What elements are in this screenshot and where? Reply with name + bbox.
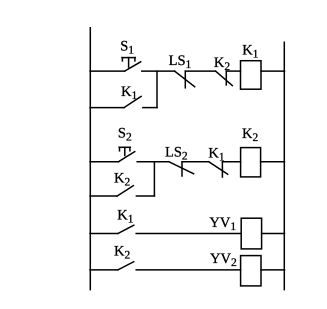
wire row5 coil YV1 to right rail [262,233,285,235]
pushbutton S2 blade [118,152,134,162]
wire row1 LS1 to K2 contact [185,70,215,72]
contact K2 (NO) row6 blade [118,262,134,270]
right power rail [283,42,285,289]
wire row4 right [136,195,154,197]
wire row6 coil YV2 to right rail [261,269,285,271]
wire row1 left [90,70,125,72]
coil YV2 [241,256,261,286]
wire row6 left [90,269,118,271]
wire row1 S1 to LS1 [142,70,175,72]
wire row1 K2 to coil K1 [226,70,240,72]
svg-text:K1: K1 [208,146,224,164]
wire row3 LS2 to K1 contact [182,161,209,163]
coil YV1 [241,218,261,249]
contact K2 (NO) row4 blade [117,186,133,196]
svg-text:K1: K1 [242,43,258,61]
svg-text:K1: K1 [117,208,133,226]
svg-text:LS1: LS1 [169,53,192,71]
svg-text:K2: K2 [114,170,130,188]
svg-text:YV2: YV2 [210,251,237,269]
pushbutton S1 blade [125,62,141,71]
wire row4 left [90,195,117,197]
coil K2 [241,148,261,177]
svg-text:S2: S2 [118,126,132,144]
svg-text:YV1: YV1 [209,215,236,233]
wire row2 left [90,107,124,109]
svg-text:K2: K2 [114,243,130,261]
wire row1 coil K1 to right rail [261,70,285,72]
svg-text:K2: K2 [242,126,258,144]
wire row2 right [143,107,157,109]
wire row4-row3 connector [153,162,155,196]
contact K1 (NO) row5 blade [118,225,134,233]
pushbutton S2 actuator [119,147,130,155]
contact K1 (NC) row3 [209,162,228,177]
wire row5 left [90,233,118,235]
svg-text:K1: K1 [121,84,137,102]
left power rail [89,28,91,290]
svg-text:LS2: LS2 [165,145,188,163]
pushbutton S1 actuator [122,58,135,68]
wire row3 coil K2 to right rail [261,161,285,163]
contact K1 (NO) row2 blade [124,96,141,107]
limit switch LS2 (NC) [169,162,194,176]
limit switch LS1 (NC) [175,71,195,88]
wire row5 to coil YV1 [136,233,241,235]
wire row6 to coil YV2 [136,269,240,271]
contact K2 (NC) row1 [216,71,233,86]
wire row3 S2 to LS2 [137,161,169,163]
coil K1 [241,61,262,89]
svg-text:K2: K2 [214,55,230,73]
wire row2-row1 connector [156,71,158,108]
wire row3 left [90,161,118,163]
svg-text:S1: S1 [120,38,134,56]
wire row3 K1 to coil K2 [222,161,240,163]
